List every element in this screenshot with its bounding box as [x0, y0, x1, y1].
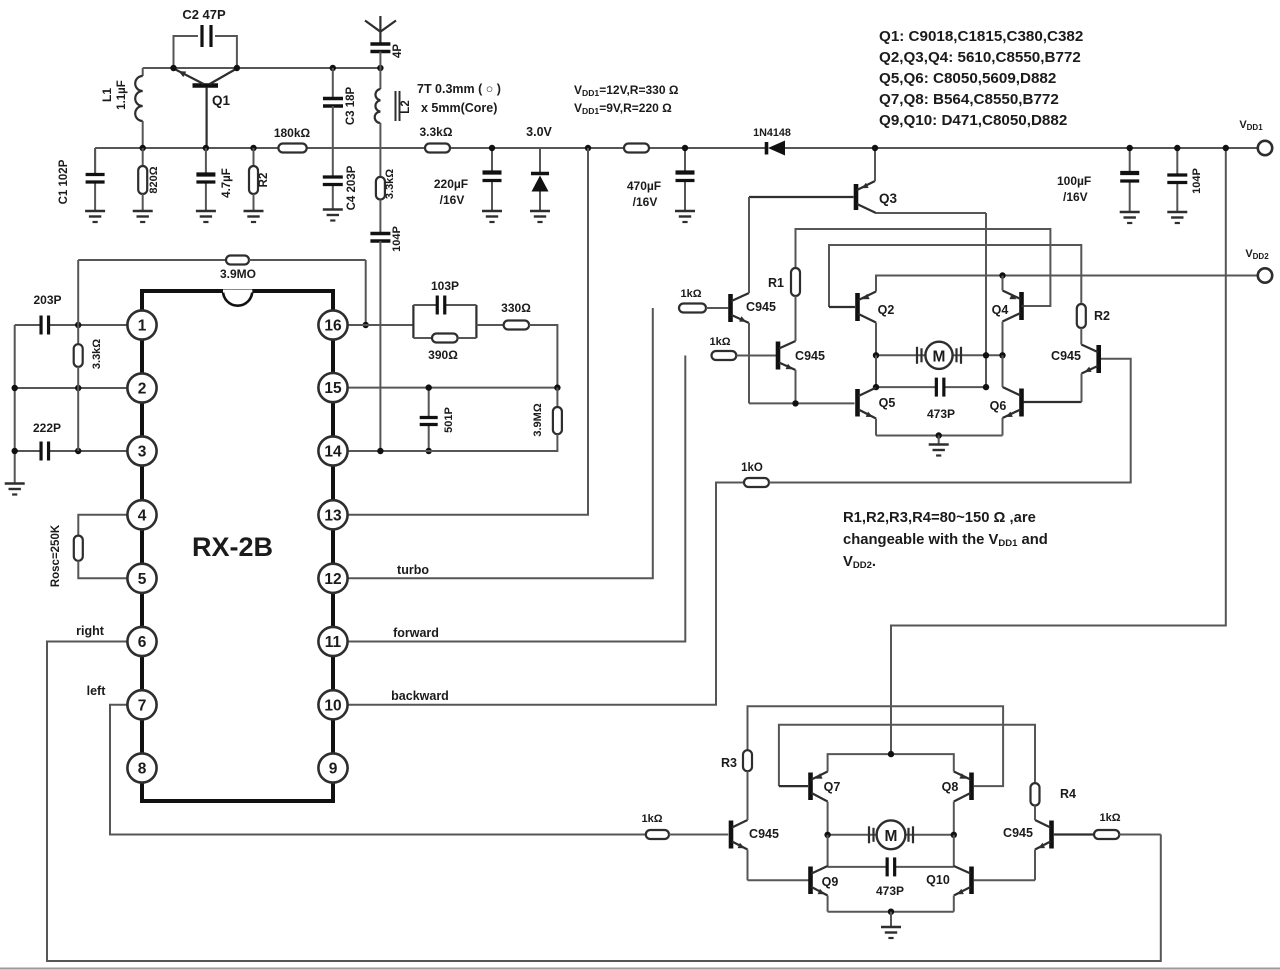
svg-text:C1 102P: C1 102P	[58, 159, 70, 204]
wire 104P down to pin14 line	[379, 241, 381, 451]
svg-text:13: 13	[324, 507, 342, 524]
resistor 3.3k ohm (horizontal)	[425, 144, 450, 153]
pin 8	[127, 753, 156, 782]
node: rail junction dots	[170, 65, 176, 71]
svg-text:1: 1	[138, 318, 147, 335]
svg-text:1kO: 1kO	[741, 462, 763, 474]
svg-text:3.9MO: 3.9MO	[220, 267, 256, 281]
svg-text:1.1µF: 1.1µF	[116, 80, 128, 110]
resistor 1k (backward)	[744, 478, 769, 487]
svg-text:100µF: 100µF	[1057, 174, 1091, 188]
svg-text:4P: 4P	[392, 44, 404, 58]
wire pin7 left control	[110, 705, 646, 835]
wire pin13 to supply rail	[348, 148, 588, 515]
svg-text:203P: 203P	[33, 293, 61, 307]
svg-text:501P: 501P	[443, 407, 455, 433]
wire pin10 backward	[348, 483, 744, 705]
node 3.0V	[489, 145, 495, 151]
svg-text:C945: C945	[1003, 826, 1033, 840]
diode (3.0V clamp)	[539, 148, 541, 174]
transistor C945 c (right driver)	[1096, 345, 1101, 373]
svg-text:C945: C945	[746, 300, 776, 314]
IC U1 RX-2B body	[142, 291, 333, 801]
IC notch	[223, 291, 252, 306]
svg-text:3.3kΩ: 3.3kΩ	[420, 125, 453, 139]
svg-text:Q6: Q6	[990, 399, 1007, 413]
pin 4	[127, 500, 156, 529]
pin 12	[318, 564, 347, 593]
ground (bridge 1)	[929, 443, 949, 446]
resistor R4	[1031, 783, 1040, 805]
svg-text:C945: C945	[795, 349, 825, 363]
svg-text:M: M	[933, 348, 946, 365]
resistor 1k (forward)	[712, 351, 737, 360]
pin 1	[127, 310, 156, 339]
wire pin2 line	[15, 387, 127, 389]
capacitor C4 203P	[332, 148, 334, 177]
svg-text:10: 10	[324, 697, 341, 714]
svg-text:M: M	[885, 828, 898, 845]
wire Q7/Q8 emitter rail (VDD1 fed)	[828, 754, 954, 771]
svg-text:L1: L1	[100, 88, 114, 102]
ground (C4)	[323, 208, 343, 211]
svg-text:Q9: Q9	[822, 875, 839, 889]
svg-text:R2: R2	[258, 173, 270, 188]
wire RF input line y=148	[95, 147, 278, 149]
svg-text:Q2,Q3,Q4: 5610,C8550,B772: Q2,Q3,Q4: 5610,C8550,B772	[879, 49, 1081, 66]
svg-text:forward: forward	[393, 626, 439, 640]
svg-text:1kΩ: 1kΩ	[641, 813, 662, 825]
svg-text:7T 0.3mm ( ○ ): 7T 0.3mm ( ○ )	[417, 82, 501, 96]
pin 9	[318, 753, 347, 782]
resistor 1k (turbo)	[679, 304, 706, 313]
motor M1	[876, 354, 926, 356]
svg-text:473P: 473P	[927, 407, 955, 421]
resistor R2 (bias)	[253, 148, 255, 166]
svg-text:/16V: /16V	[440, 193, 465, 207]
pin 16	[318, 310, 347, 339]
svg-text:left: left	[87, 684, 107, 698]
svg-text:1N4148: 1N4148	[753, 127, 791, 139]
svg-text:L2: L2	[400, 100, 412, 113]
svg-text:R4: R4	[1060, 787, 1076, 801]
svg-text:Q5,Q6: C8050,5609,D882: Q5,Q6: C8050,5609,D882	[879, 70, 1056, 87]
wire pin15 line	[348, 387, 557, 389]
ground (470uF)	[675, 210, 695, 213]
svg-text:7: 7	[138, 697, 147, 714]
capacitor 100uF/16V	[1129, 148, 1131, 173]
terminal VDD2	[1258, 268, 1272, 282]
node pin14 dots	[377, 448, 383, 454]
svg-text:1kΩ: 1kΩ	[680, 288, 701, 300]
svg-text:220µF: 220µF	[434, 177, 468, 191]
svg-text:16: 16	[324, 318, 342, 335]
capacitor 501P	[428, 388, 430, 418]
node: base line junction dots	[140, 145, 146, 151]
svg-text:Q2: Q2	[878, 303, 895, 317]
svg-text:4.7µF: 4.7µF	[221, 168, 233, 198]
transistor Q5	[855, 389, 860, 417]
border bottom	[0, 968, 1280, 970]
motor M2	[828, 834, 878, 836]
wire pin12 turbo	[348, 308, 653, 578]
wire C945 emitters to Q5 base	[749, 402, 855, 404]
pin 11	[318, 627, 347, 656]
diode 1N4148	[765, 142, 769, 155]
wire C945e emitter to Q10 base	[974, 879, 1035, 881]
svg-text:Q4: Q4	[992, 303, 1009, 317]
capacitor 4P	[370, 42, 390, 45]
svg-text:104P: 104P	[391, 226, 403, 252]
svg-text:Q1: C9018,C1815,C380,C382: Q1: C9018,C1815,C380,C382	[879, 28, 1083, 45]
resistor R2 (bridge)	[1077, 304, 1086, 328]
wire 330 ohm to pin15	[529, 325, 557, 388]
transistor Q7	[808, 773, 813, 801]
pin 10	[318, 690, 347, 719]
capacitor 220uF/16V	[491, 148, 493, 173]
svg-text:3.9MΩ: 3.9MΩ	[532, 403, 544, 436]
ground (C1)	[85, 210, 105, 213]
transistor Q3	[854, 184, 859, 210]
transistor Q4	[1019, 292, 1024, 320]
svg-text:11: 11	[325, 634, 342, 651]
svg-text:turbo: turbo	[397, 563, 429, 577]
capacitor 473P (motor 1)	[875, 355, 877, 387]
capacitor 104P (under 3.3k)	[379, 200, 381, 234]
wire left ground column	[14, 325, 16, 484]
svg-text:2: 2	[138, 381, 147, 398]
svg-text:R1: R1	[768, 276, 784, 290]
ground (220uF)	[482, 210, 502, 213]
svg-text:12: 12	[324, 571, 341, 588]
svg-text:473P: 473P	[876, 884, 904, 898]
wire backward to right C945 base	[769, 359, 1131, 483]
svg-text:Q10: Q10	[926, 873, 950, 887]
transistor Q2	[855, 293, 860, 321]
pin 2	[127, 373, 156, 402]
svg-text:R1,R2,R3,R4=80~150 Ω ,are: R1,R2,R3,R4=80~150 Ω ,are	[843, 510, 1036, 526]
network 103P / 390 ohm	[412, 305, 414, 338]
transistor Q9	[808, 867, 813, 895]
svg-text:backward: backward	[391, 689, 449, 703]
capacitor 470uF/16V	[684, 148, 686, 173]
transistor Q10	[969, 867, 974, 895]
pin 7	[127, 690, 156, 719]
svg-text:3.3kΩ: 3.3kΩ	[91, 339, 103, 369]
resistor 3.3k ohm (vertical, under L2)	[379, 148, 381, 177]
svg-text:Q5: Q5	[879, 396, 896, 410]
node filter dots	[12, 385, 18, 391]
svg-text:Q9,Q10: D471,C8050,D882: Q9,Q10: D471,C8050,D882	[879, 112, 1067, 129]
pin 3	[127, 436, 156, 465]
terminal VDD1	[1258, 141, 1272, 155]
resistor R (series supply)	[624, 144, 649, 153]
resistor 180k ohm	[278, 144, 306, 153]
wire pin6 right control	[47, 642, 1161, 962]
wire VDD2 line (Q2/Q4 emitters)	[876, 276, 1258, 292]
pin 13	[318, 500, 347, 529]
wire pin16 line	[348, 324, 413, 326]
resistor 820 ohm	[142, 148, 144, 166]
svg-text:5: 5	[138, 571, 147, 588]
svg-text:C945: C945	[1051, 349, 1081, 363]
pin 6	[127, 627, 156, 656]
ground (R2)	[244, 210, 264, 213]
resistor 3.9M ohm (pin15-pin14)	[556, 388, 558, 407]
node pin13 supply tap	[585, 145, 591, 151]
svg-text:changeable with the VDD1 and: changeable with the VDD1 and	[843, 532, 1048, 549]
svg-text:x 5mm(Core): x 5mm(Core)	[421, 101, 497, 115]
wire R3-top to Q8 base rail	[748, 706, 1004, 786]
ground (820)	[133, 210, 153, 213]
svg-text:Q7,Q8: B564,C8550,B772: Q7,Q8: B564,C8550,B772	[879, 91, 1059, 108]
pin 14	[318, 436, 347, 465]
svg-text:Q1: Q1	[212, 93, 231, 108]
capacitor C1 102P	[94, 148, 96, 175]
svg-text:Q8: Q8	[942, 780, 959, 794]
svg-text:RX-2B: RX-2B	[192, 532, 273, 562]
resistor R3	[743, 750, 752, 771]
capacitor C2 47P	[174, 36, 199, 68]
svg-text:103P: 103P	[431, 279, 459, 293]
svg-text:8: 8	[138, 761, 147, 778]
wire C945d emitter to Q9 base	[748, 879, 809, 881]
wire pin3 line	[15, 450, 41, 452]
svg-text:/16V: /16V	[633, 195, 658, 209]
svg-text:right: right	[76, 624, 105, 638]
wire Q3 collector to motor1 right	[876, 212, 987, 214]
resistor 1k (left motor2 driver)	[646, 830, 669, 839]
wire Q9/Q10 emitter rail	[828, 911, 954, 913]
wire Q5/Q6 emitter rail	[876, 435, 1003, 437]
svg-text:C945: C945	[749, 827, 779, 841]
svg-text:14: 14	[324, 444, 342, 461]
svg-text:1kΩ: 1kΩ	[709, 336, 730, 348]
svg-text:3.3kΩ: 3.3kΩ	[384, 169, 396, 199]
svg-text:Q7: Q7	[824, 780, 841, 794]
resistor 3.9M ohm (feedback)	[78, 259, 226, 261]
svg-text:3: 3	[138, 444, 147, 461]
transistor C945 b (forward driver)	[776, 342, 781, 370]
resistor 1k (right motor2 driver)	[1054, 833, 1094, 835]
wire pin11 forward	[348, 356, 685, 642]
pin 15	[318, 373, 347, 402]
svg-text:15: 15	[324, 380, 342, 397]
transistor Q8	[969, 773, 974, 801]
svg-text:390Ω: 390Ω	[428, 348, 458, 362]
ground (filter)	[5, 482, 25, 485]
svg-text:104P: 104P	[1191, 168, 1203, 194]
svg-text:/16V: /16V	[1063, 190, 1088, 204]
resistor R1	[791, 268, 800, 296]
svg-text:4: 4	[138, 507, 147, 524]
capacitor 222P	[39, 442, 42, 461]
svg-text:470µF: 470µF	[627, 179, 661, 193]
svg-text:9: 9	[329, 761, 338, 778]
svg-text:180kΩ: 180kΩ	[274, 126, 311, 140]
svg-text:C4 203P: C4 203P	[346, 165, 358, 210]
capacitor C3 18P	[332, 68, 334, 99]
transistor C945 e (right driver motor2)	[1049, 821, 1054, 849]
ground (diode)	[530, 210, 550, 213]
svg-text:R3: R3	[721, 756, 737, 770]
svg-text:820Ω: 820Ω	[148, 166, 160, 193]
antenna	[379, 16, 381, 32]
wire pin1 line	[49, 324, 128, 326]
wire Q7 base to R4-top rail	[779, 725, 1035, 786]
ground (100uF)	[1120, 211, 1140, 214]
wire R1-top to Q4 base rail	[796, 229, 1051, 306]
ground (104P supply)	[1167, 211, 1187, 214]
ground (4.7uF)	[196, 210, 216, 213]
transistor Q6	[1019, 389, 1024, 417]
svg-text:330Ω: 330Ω	[501, 301, 531, 315]
wire top rail (Q1 collector rail)	[143, 67, 381, 69]
svg-text:6: 6	[138, 634, 147, 651]
transistor C945 d (left driver)	[729, 821, 734, 849]
svg-text:222P: 222P	[33, 421, 61, 435]
inductor L2 with core	[379, 68, 381, 89]
resistor 3.3k ohm (pin1-pin2)	[77, 260, 79, 344]
capacitor 473P (motor 2)	[827, 835, 829, 867]
ground (bridge 2)	[881, 926, 901, 929]
svg-text:R2: R2	[1094, 309, 1110, 323]
wire VDD1 feed to motor2 bridge	[891, 148, 1226, 754]
pin 5	[127, 564, 156, 593]
resistor Rosc=250K	[78, 515, 127, 536]
capacitor 104P (supply)	[1176, 148, 1178, 175]
transistor Q1	[193, 83, 219, 88]
capacitor 4.7uF	[205, 148, 207, 175]
wire Q2 base to R2-top rail	[829, 245, 1081, 307]
svg-text:1kΩ: 1kΩ	[1099, 812, 1120, 824]
transistor C945 a (turbo driver)	[728, 294, 733, 322]
svg-text:Rosc=250K: Rosc=250K	[50, 524, 62, 587]
svg-text:Q3: Q3	[879, 191, 898, 206]
capacitor 203P	[39, 316, 42, 335]
resistor 330 ohm	[476, 324, 503, 326]
inductor L1	[142, 68, 144, 76]
svg-text:3.0V: 3.0V	[526, 125, 552, 139]
svg-text:C3 18P: C3 18P	[345, 86, 357, 125]
svg-text:C2 47P: C2 47P	[182, 7, 226, 22]
